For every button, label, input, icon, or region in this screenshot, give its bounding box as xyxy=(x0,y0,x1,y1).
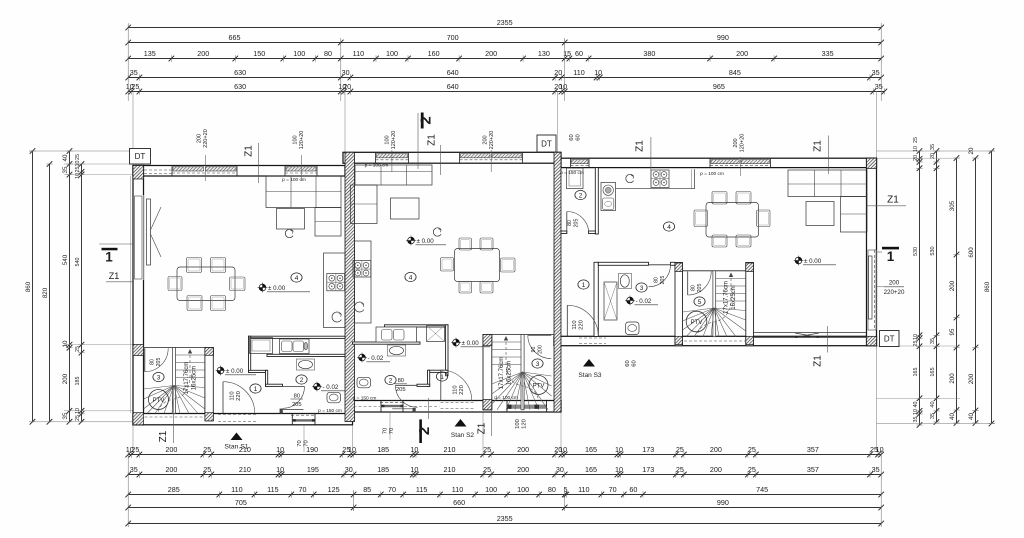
svg-text:35: 35 xyxy=(130,465,138,474)
svg-text:1: 1 xyxy=(440,374,444,381)
svg-text:80: 80 xyxy=(324,49,332,58)
svg-text:200: 200 xyxy=(485,49,497,58)
svg-text:± 0.00: ± 0.00 xyxy=(226,368,244,375)
svg-text:285: 285 xyxy=(168,485,180,494)
svg-text:PTV: PTV xyxy=(691,320,703,326)
svg-text:10: 10 xyxy=(615,465,623,474)
svg-text:70: 70 xyxy=(299,485,307,494)
svg-text:380: 380 xyxy=(643,49,655,58)
svg-text:110: 110 xyxy=(353,49,364,58)
svg-text:25: 25 xyxy=(75,415,81,421)
svg-text:16x25cm: 16x25cm xyxy=(731,285,737,309)
svg-text:30: 30 xyxy=(556,465,564,474)
svg-text:80: 80 xyxy=(398,378,404,384)
svg-text:90: 90 xyxy=(531,347,537,353)
svg-text:120+20: 120+20 xyxy=(299,131,305,150)
svg-text:860: 860 xyxy=(25,281,32,292)
svg-text:110: 110 xyxy=(453,385,459,394)
svg-text:745: 745 xyxy=(756,485,768,494)
svg-text:± 0.00: ± 0.00 xyxy=(804,258,822,265)
svg-text:200: 200 xyxy=(538,345,544,354)
svg-text:165: 165 xyxy=(930,367,936,376)
svg-text:60: 60 xyxy=(625,360,631,366)
svg-text:150: 150 xyxy=(253,49,265,58)
svg-text:205: 205 xyxy=(292,402,302,408)
svg-text:40: 40 xyxy=(62,154,69,161)
svg-text:630: 630 xyxy=(234,82,246,91)
svg-text:185: 185 xyxy=(377,465,389,474)
svg-text:335: 335 xyxy=(822,49,834,58)
svg-text:110: 110 xyxy=(572,320,578,329)
svg-text:10: 10 xyxy=(410,445,418,454)
svg-text:Z1: Z1 xyxy=(158,430,169,442)
svg-text:25: 25 xyxy=(676,465,684,474)
svg-text:200: 200 xyxy=(517,465,529,474)
svg-text:25: 25 xyxy=(75,346,81,352)
svg-text:115: 115 xyxy=(416,485,427,494)
svg-text:p = 150 cm: p = 150 cm xyxy=(318,408,342,414)
svg-text:200: 200 xyxy=(710,445,722,454)
svg-text:30: 30 xyxy=(342,68,350,77)
svg-text:35: 35 xyxy=(872,68,880,77)
svg-text:60: 60 xyxy=(629,485,637,494)
svg-text:205: 205 xyxy=(660,276,666,285)
svg-text:DT: DT xyxy=(541,140,552,149)
svg-text:5: 5 xyxy=(564,485,568,494)
svg-text:220+20: 220+20 xyxy=(203,129,209,148)
svg-text:35: 35 xyxy=(872,465,880,474)
svg-text:70: 70 xyxy=(383,428,389,434)
svg-text:70: 70 xyxy=(609,485,617,494)
svg-text:d = 100 cm: d = 100 cm xyxy=(494,395,518,401)
svg-text:25: 25 xyxy=(483,465,491,474)
svg-text:- 0.02: - 0.02 xyxy=(368,355,384,362)
svg-text:115: 115 xyxy=(267,485,278,494)
svg-text:80: 80 xyxy=(548,485,556,494)
svg-text:220+20: 220+20 xyxy=(489,131,495,150)
svg-text:- 0.02: - 0.02 xyxy=(323,384,339,391)
svg-text:10: 10 xyxy=(615,445,623,454)
svg-text:p = 150 cm: p = 150 cm xyxy=(353,396,377,402)
svg-text:705: 705 xyxy=(235,498,247,507)
svg-text:35: 35 xyxy=(930,144,936,150)
svg-text:200: 200 xyxy=(949,280,956,291)
svg-text:200: 200 xyxy=(710,465,722,474)
svg-text:200: 200 xyxy=(736,49,748,58)
svg-text:16x25cm: 16x25cm xyxy=(192,366,198,390)
svg-text:2355: 2355 xyxy=(497,18,513,27)
svg-text:205: 205 xyxy=(574,219,580,228)
svg-text:95: 95 xyxy=(949,328,956,335)
svg-text:PTV: PTV xyxy=(153,398,165,404)
svg-text:p = 100 cm: p = 100 cm xyxy=(365,163,389,169)
svg-text:60: 60 xyxy=(631,360,637,366)
svg-text:200: 200 xyxy=(483,135,489,144)
svg-text:10: 10 xyxy=(276,445,284,454)
svg-text:60: 60 xyxy=(575,49,583,58)
svg-text:10: 10 xyxy=(410,465,418,474)
svg-text:630: 630 xyxy=(234,68,246,77)
svg-text:3: 3 xyxy=(640,285,644,292)
svg-text:660: 660 xyxy=(453,498,465,507)
svg-text:110: 110 xyxy=(573,68,584,77)
svg-text:530: 530 xyxy=(913,247,919,256)
svg-text:Stan S1: Stan S1 xyxy=(224,444,248,451)
svg-text:4: 4 xyxy=(409,274,413,281)
svg-text:5: 5 xyxy=(698,299,702,306)
svg-text:205: 205 xyxy=(697,284,703,293)
svg-text:4: 4 xyxy=(295,275,299,282)
svg-text:Z1: Z1 xyxy=(427,134,438,146)
svg-text:100: 100 xyxy=(386,49,398,58)
svg-text:210: 210 xyxy=(444,465,456,474)
svg-text:3: 3 xyxy=(157,374,161,381)
svg-text:220: 220 xyxy=(459,385,465,395)
svg-text:p = 100 cm: p = 100 cm xyxy=(282,177,306,183)
svg-text:Stan S3: Stan S3 xyxy=(578,372,602,379)
svg-text:2: 2 xyxy=(418,116,435,124)
svg-text:25: 25 xyxy=(131,445,139,454)
svg-text:200: 200 xyxy=(949,373,956,384)
svg-text:1: 1 xyxy=(887,249,895,264)
svg-text:10: 10 xyxy=(62,340,69,347)
svg-text:10: 10 xyxy=(913,409,919,415)
svg-text:165: 165 xyxy=(585,445,597,454)
svg-text:10: 10 xyxy=(559,445,567,454)
svg-text:700: 700 xyxy=(447,33,459,42)
svg-text:40: 40 xyxy=(968,413,975,420)
svg-text:1: 1 xyxy=(582,282,586,289)
svg-text:25: 25 xyxy=(203,465,211,474)
svg-text:200: 200 xyxy=(165,445,177,454)
svg-text:25: 25 xyxy=(203,445,211,454)
svg-text:3: 3 xyxy=(536,361,540,368)
svg-text:220: 220 xyxy=(578,320,584,330)
svg-text:35: 35 xyxy=(875,82,883,91)
svg-text:820: 820 xyxy=(42,287,49,298)
svg-text:25: 25 xyxy=(748,445,756,454)
svg-text:100: 100 xyxy=(517,485,529,494)
svg-text:165: 165 xyxy=(585,465,597,474)
svg-text:110: 110 xyxy=(230,391,236,400)
svg-text:15: 15 xyxy=(563,49,571,58)
svg-text:Z1: Z1 xyxy=(635,140,646,152)
svg-text:220+20: 220+20 xyxy=(884,289,905,296)
svg-text:205: 205 xyxy=(156,358,162,367)
svg-text:200: 200 xyxy=(197,49,209,58)
svg-text:120: 120 xyxy=(522,419,528,429)
svg-text:70: 70 xyxy=(297,440,303,446)
svg-text:17x17.76cm: 17x17.76cm xyxy=(499,357,505,390)
svg-text:35: 35 xyxy=(130,68,138,77)
svg-text:100: 100 xyxy=(515,419,521,429)
svg-text:Stan S2: Stan S2 xyxy=(451,432,475,439)
svg-text:100: 100 xyxy=(293,135,299,144)
svg-text:± 0.00: ± 0.00 xyxy=(462,340,480,347)
svg-text:25: 25 xyxy=(75,167,81,173)
svg-text:540: 540 xyxy=(75,258,81,267)
svg-text:30: 30 xyxy=(345,465,353,474)
svg-text:Z1: Z1 xyxy=(109,271,120,281)
svg-text:35: 35 xyxy=(62,166,69,173)
svg-text:20: 20 xyxy=(343,82,351,91)
svg-text:17x17.76cm: 17x17.76cm xyxy=(184,362,190,395)
svg-text:25: 25 xyxy=(913,137,919,143)
svg-text:10: 10 xyxy=(75,173,81,179)
svg-text:195: 195 xyxy=(307,465,319,474)
svg-text:80: 80 xyxy=(150,359,156,365)
svg-text:200: 200 xyxy=(733,138,739,147)
svg-text:Z1: Z1 xyxy=(813,140,824,152)
svg-text:17x17.76cm: 17x17.76cm xyxy=(724,281,730,314)
svg-text:p = 100 cm: p = 100 cm xyxy=(700,171,724,177)
svg-text:10: 10 xyxy=(876,445,884,454)
svg-text:2: 2 xyxy=(416,427,433,435)
svg-text:130: 130 xyxy=(538,49,550,58)
svg-text:173: 173 xyxy=(642,465,654,474)
svg-text:185: 185 xyxy=(75,377,81,386)
svg-text:Z1: Z1 xyxy=(887,195,899,206)
svg-text:200: 200 xyxy=(889,280,900,287)
svg-text:10: 10 xyxy=(913,334,919,340)
svg-text:PTV: PTV xyxy=(533,384,545,390)
svg-text:20: 20 xyxy=(554,68,562,77)
svg-text:85: 85 xyxy=(363,485,371,494)
svg-text:640: 640 xyxy=(447,68,459,77)
svg-text:200: 200 xyxy=(197,134,203,143)
svg-text:160: 160 xyxy=(428,49,440,58)
svg-text:173: 173 xyxy=(642,445,654,454)
svg-text:2: 2 xyxy=(300,377,304,384)
svg-text:Z1: Z1 xyxy=(244,145,255,157)
svg-text:25: 25 xyxy=(131,82,139,91)
svg-text:125: 125 xyxy=(328,485,340,494)
svg-text:965: 965 xyxy=(713,82,725,91)
svg-text:40: 40 xyxy=(913,402,919,408)
svg-text:2: 2 xyxy=(389,377,393,384)
svg-text:200: 200 xyxy=(165,465,177,474)
svg-text:10: 10 xyxy=(348,445,356,454)
svg-text:357: 357 xyxy=(807,445,819,454)
svg-text:25: 25 xyxy=(748,465,756,474)
svg-text:± 0.00: ± 0.00 xyxy=(268,285,286,292)
svg-text:10: 10 xyxy=(559,82,567,91)
svg-text:35: 35 xyxy=(930,413,936,419)
svg-text:2355: 2355 xyxy=(497,514,513,523)
svg-text:DT: DT xyxy=(884,335,895,344)
svg-text:185: 185 xyxy=(377,445,389,454)
svg-text:990: 990 xyxy=(717,498,729,507)
svg-text:25: 25 xyxy=(483,445,491,454)
svg-text:110: 110 xyxy=(231,485,242,494)
svg-text:35: 35 xyxy=(62,412,69,419)
svg-text:4: 4 xyxy=(667,224,671,231)
svg-text:20: 20 xyxy=(968,147,975,154)
svg-text:210: 210 xyxy=(239,465,251,474)
svg-text:70: 70 xyxy=(388,485,396,494)
svg-text:120+20: 120+20 xyxy=(740,134,746,153)
svg-text:60: 60 xyxy=(569,134,575,140)
svg-text:80: 80 xyxy=(294,393,300,399)
svg-text:845: 845 xyxy=(729,68,741,77)
svg-text:70: 70 xyxy=(389,428,395,434)
svg-text:100: 100 xyxy=(485,485,497,494)
svg-text:540: 540 xyxy=(62,254,69,265)
svg-text:2: 2 xyxy=(579,192,583,199)
svg-text:100: 100 xyxy=(385,135,391,144)
svg-text:305: 305 xyxy=(949,200,956,211)
svg-text:110: 110 xyxy=(578,485,589,494)
svg-text:200: 200 xyxy=(968,373,975,384)
svg-text:135: 135 xyxy=(144,49,156,58)
svg-text:25: 25 xyxy=(676,445,684,454)
svg-text:205: 205 xyxy=(396,387,406,393)
svg-text:665: 665 xyxy=(229,33,241,42)
svg-text:10: 10 xyxy=(594,68,602,77)
svg-text:DT: DT xyxy=(135,152,146,161)
svg-text:80: 80 xyxy=(691,285,697,291)
svg-text:25: 25 xyxy=(75,154,81,160)
svg-text:80: 80 xyxy=(567,220,573,226)
svg-text:60: 60 xyxy=(575,134,581,140)
svg-text:35: 35 xyxy=(930,338,936,344)
svg-text:80: 80 xyxy=(654,277,660,283)
svg-text:640: 640 xyxy=(447,82,459,91)
svg-text:40: 40 xyxy=(930,401,936,407)
svg-text:Z1: Z1 xyxy=(813,355,824,367)
svg-text:p = 150 cm: p = 150 cm xyxy=(560,170,584,176)
svg-text:165: 165 xyxy=(913,368,919,377)
svg-text:110: 110 xyxy=(452,485,463,494)
svg-text:600: 600 xyxy=(968,247,975,258)
svg-text:210: 210 xyxy=(444,445,456,454)
svg-text:1: 1 xyxy=(105,250,113,265)
svg-text:± 0.00: ± 0.00 xyxy=(417,238,435,245)
svg-text:10: 10 xyxy=(75,161,81,167)
svg-text:220: 220 xyxy=(236,391,242,401)
svg-text:357: 357 xyxy=(807,465,819,474)
svg-text:530: 530 xyxy=(930,246,936,255)
svg-text:70: 70 xyxy=(303,440,309,446)
svg-text:120+20: 120+20 xyxy=(391,131,397,150)
svg-text:- 0.02: - 0.02 xyxy=(636,298,652,305)
svg-text:200: 200 xyxy=(517,445,529,454)
svg-text:10: 10 xyxy=(276,465,284,474)
svg-text:25: 25 xyxy=(913,341,919,347)
svg-text:1: 1 xyxy=(254,386,258,393)
svg-text:200: 200 xyxy=(62,373,69,384)
svg-text:Z1: Z1 xyxy=(476,422,487,434)
svg-text:860: 860 xyxy=(984,281,991,292)
svg-text:990: 990 xyxy=(717,33,729,42)
svg-text:35: 35 xyxy=(913,417,919,423)
svg-text:100: 100 xyxy=(293,49,305,58)
svg-text:40: 40 xyxy=(949,413,956,420)
svg-text:16x25cm: 16x25cm xyxy=(507,361,513,385)
